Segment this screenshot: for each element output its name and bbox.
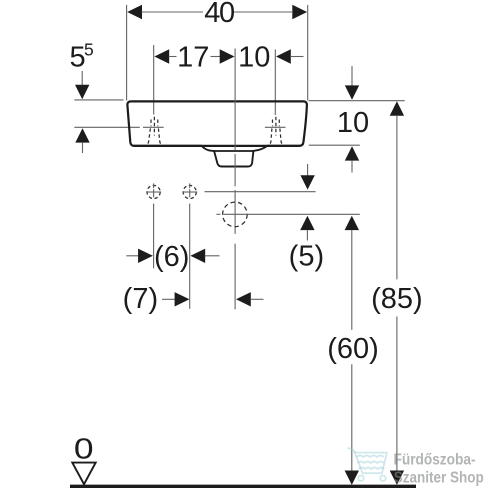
- svg-text:Fürdőszoba-: Fürdőszoba-: [394, 452, 476, 469]
- dim 10 top: tail line: [290, 56, 303, 58]
- dim 17: left arrowhead: [154, 49, 169, 63]
- dim 6 paren: left tail line: [126, 255, 139, 257]
- dim 40: left arrowhead: [127, 5, 142, 19]
- fixing hole 1 cross: [146, 191, 161, 193]
- drain horizontal reference line: [224, 213, 360, 215]
- drain dashed circle: [223, 202, 248, 227]
- svg-text:10: 10: [337, 107, 369, 139]
- tap hole 2 dashed symbol: [268, 117, 283, 145]
- dim 10 right: up arrow stem: [351, 161, 353, 173]
- svg-text:(85): (85): [371, 283, 423, 315]
- dim 40: line right segment: [234, 11, 293, 13]
- svg-text:(60): (60): [327, 333, 379, 365]
- dim 85: line lower segment: [396, 317, 398, 472]
- dim 5 paren: up arrow stem: [306, 230, 308, 240]
- top reference line right: [309, 100, 405, 102]
- dim 6 paren: right tail line: [205, 255, 220, 257]
- dim 10 top: arrowhead pointing left: [276, 49, 291, 63]
- svg-text:10: 10: [238, 42, 270, 74]
- basin outline: [127, 101, 307, 145]
- dim 7 paren: right arrowhead pointing left: [236, 292, 251, 306]
- tap hole 1 dashed symbol: [146, 117, 162, 145]
- svg-text:Szaniter Shop: Szaniter Shop: [394, 469, 484, 486]
- dim 17: short line left: [169, 56, 177, 58]
- dim 7 paren: line: [162, 298, 175, 300]
- drain cross tick left: [216, 213, 220, 215]
- watermark cart icon: [348, 448, 388, 481]
- fixing hole 2 axis line: [189, 183, 191, 308]
- basin bowl underside dish: [201, 145, 268, 151]
- dim 60: line upper segment: [351, 230, 353, 330]
- fixing hole 1 dashed circle: [147, 185, 160, 198]
- dim 5.5: down arrowhead: [75, 85, 89, 99]
- drain stub: [214, 151, 253, 167]
- svg-text:(5): (5): [289, 241, 324, 273]
- svg-text:5: 5: [84, 40, 94, 60]
- fixing hole 2 dashed circle: [183, 185, 196, 198]
- dim 5.5: down arrow stem: [81, 71, 83, 86]
- dim 6 paren: left arrowhead pointing right: [138, 249, 153, 263]
- dim 17: left extension line (tap hole 1 axis): [153, 45, 155, 115]
- tap hole 1 cross line: [143, 126, 164, 128]
- drain center line: [234, 49, 236, 310]
- dim 5.5: lower reference line (tap axis): [74, 126, 140, 128]
- dim 85: line upper segment: [396, 116, 398, 280]
- dim 10 right: down arrowhead: [345, 85, 359, 99]
- svg-text:0: 0: [74, 433, 94, 465]
- dim 40: right arrowhead: [292, 5, 307, 19]
- dim 10 right: down arrow stem: [351, 66, 353, 86]
- dim 40: line left segment: [142, 11, 204, 13]
- fixing holes reference line: [205, 191, 316, 193]
- dim 60: down arrowhead at ground: [345, 471, 359, 485]
- dim 5.5: up arrowhead: [75, 128, 89, 142]
- basin bottom edge right segment: [267, 145, 300, 147]
- bottom reference line right: [309, 144, 360, 146]
- svg-text:(6): (6): [154, 241, 189, 273]
- dim 40: left extension line: [126, 5, 128, 101]
- dim 5 paren: down arrowhead: [300, 175, 314, 189]
- tap hole 2 cross line: [265, 126, 286, 128]
- dim 5 paren: up arrowhead: [300, 216, 314, 230]
- dim 5.5: up arrow stem: [82, 143, 84, 153]
- zero level label: [74, 433, 94, 465]
- basin bottom edge left segment: [134, 145, 202, 147]
- dim 5 paren: down arrow stem: [307, 164, 309, 177]
- dim 40: right extension line: [307, 5, 309, 101]
- svg-text:17: 17: [177, 42, 209, 74]
- fixing hole 1 axis line: [153, 183, 155, 268]
- dim 5.5: top reference line: [74, 99, 123, 101]
- fixing hole 2 cross: [182, 191, 197, 193]
- dim 6 paren: right arrowhead pointing left: [190, 249, 205, 263]
- dim 17: short line right: [211, 56, 221, 58]
- dim 7 paren: arrowhead pointing right: [175, 292, 190, 306]
- svg-text:40: 40: [204, 0, 234, 29]
- dim 7 paren: right tail line: [250, 298, 263, 300]
- tap hole 2 extension line: [274, 50, 276, 116]
- dim 17: right arrowhead: [220, 49, 235, 63]
- dim 10 right: up arrowhead: [345, 146, 359, 160]
- dim 85: up arrowhead at basin top: [390, 101, 404, 115]
- dim 85: down arrowhead at ground: [390, 471, 404, 485]
- ground line: [70, 485, 416, 488]
- dim 60: line lower segment: [351, 364, 353, 471]
- dim 60: up arrowhead at drain line: [345, 216, 359, 230]
- zero level datum triangle: [72, 463, 95, 485]
- svg-text:(7): (7): [123, 283, 158, 315]
